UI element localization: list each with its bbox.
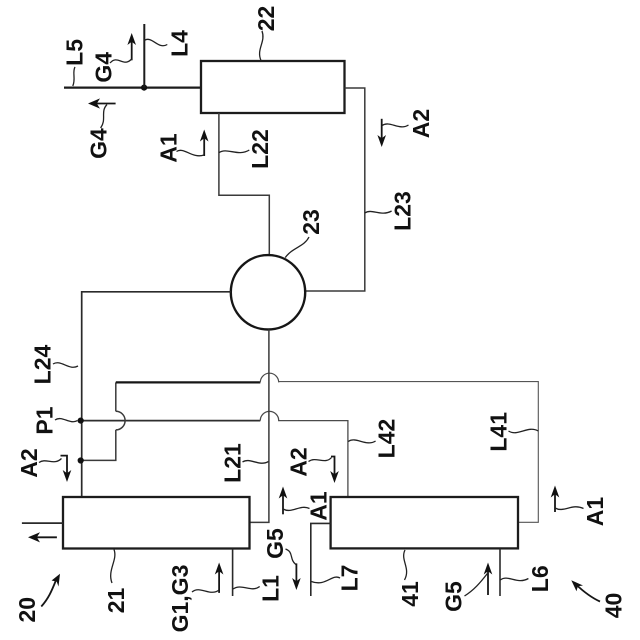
label L21 with leader	[243, 461, 269, 464]
wire L4 vertical	[143, 24, 145, 88]
svg-text:L41: L41	[486, 412, 512, 452]
label 40 with curved arrow	[576, 585, 600, 602]
wire L42 hop over L21 stem and run to box 41	[260, 411, 348, 497]
label 23 with leader	[285, 237, 309, 258]
wire L41 left segment from A2 node	[82, 430, 116, 461]
svg-text:A2: A2	[285, 447, 311, 476]
wire L7	[311, 523, 331, 596]
svg-text:41: 41	[397, 581, 423, 607]
box 21	[63, 497, 250, 549]
node P1 dot	[78, 418, 84, 424]
label L41 with leader	[509, 429, 539, 432]
label G1,G3 with arrow up	[218, 567, 220, 593]
svg-text:G5: G5	[440, 581, 466, 612]
svg-text:G4: G4	[90, 52, 116, 83]
label A1 right with arrow up	[554, 490, 556, 512]
label 20 with curved arrow	[41, 579, 56, 607]
wire L22	[219, 113, 269, 255]
svg-text:A2: A2	[16, 448, 42, 477]
wire L41 thick horizontal	[116, 381, 260, 383]
svg-text:L4: L4	[166, 30, 192, 57]
wire L41 hop over L21 stem	[260, 373, 278, 382]
label 41 with leader	[404, 550, 407, 580]
label L5 with leader	[73, 67, 75, 86]
wire L1	[232, 549, 234, 596]
label A2 mid-right with arrow down	[331, 457, 335, 479]
arrow outlet left	[33, 536, 57, 538]
label P1 with leader	[55, 419, 78, 422]
label L42 with leader	[348, 440, 375, 443]
label L7 with leader	[311, 577, 340, 583]
svg-text:L6: L6	[527, 565, 553, 592]
svg-text:L5: L5	[61, 39, 87, 66]
label A2 mid-left with arrow down	[61, 456, 68, 478]
svg-text:L42: L42	[373, 419, 399, 459]
svg-text:A1: A1	[155, 133, 181, 163]
svg-text:G1,G3: G1,G3	[167, 565, 193, 633]
label L22 with leader	[219, 150, 249, 153]
svg-text:L23: L23	[389, 191, 415, 231]
wire L41 vertical up to y382	[115, 382, 117, 411]
label L1 with leader	[233, 587, 260, 590]
node A2 dot	[78, 457, 84, 463]
label L4 with leader	[145, 39, 168, 45]
label L6 with leader	[500, 578, 528, 580]
wire L21 from circle to box 21	[250, 330, 269, 523]
box 41	[331, 497, 518, 548]
svg-text:G5: G5	[262, 528, 288, 559]
label 22 with leader	[260, 31, 263, 61]
svg-text:40: 40	[600, 593, 626, 619]
label G4 top with arrow up	[131, 38, 133, 61]
label A1 mid-left with arrow up	[282, 491, 284, 514]
svg-text:P1: P1	[31, 406, 57, 434]
node junction dot on L5/L4	[141, 85, 147, 91]
svg-text:L24: L24	[29, 344, 55, 384]
wire L41 right run to box 41	[279, 382, 539, 523]
wire L23	[305, 88, 364, 291]
label G4 left with arrow left	[93, 103, 116, 105]
label A2 top-right with arrow down	[381, 119, 383, 142]
svg-text:A2: A2	[408, 109, 434, 138]
label G5 right with arrow up	[487, 567, 489, 595]
wire L42 left part from P1	[82, 420, 261, 422]
svg-text:22: 22	[253, 6, 279, 32]
svg-text:L21: L21	[219, 443, 245, 483]
label A1 top with arrow up	[203, 134, 205, 156]
box 22	[201, 61, 345, 113]
svg-text:23: 23	[298, 209, 324, 235]
wire L41 hop over L42	[116, 411, 125, 430]
pump circle 23	[231, 255, 305, 329]
label L24 with leader	[53, 363, 78, 367]
svg-text:20: 20	[14, 597, 40, 623]
wire L24	[82, 292, 231, 497]
svg-text:A1: A1	[305, 491, 331, 521]
svg-text:L22: L22	[247, 129, 273, 169]
svg-text:A1: A1	[582, 497, 608, 527]
svg-text:L7: L7	[336, 565, 362, 592]
svg-text:G4: G4	[85, 128, 111, 159]
label G5 left with arrow down	[295, 563, 297, 585]
label 21 with leader	[111, 550, 115, 584]
wire L5 main horizontal line	[64, 86, 201, 88]
svg-text:L1: L1	[257, 575, 283, 602]
svg-text:21: 21	[103, 588, 129, 614]
wire box21 left outlet	[22, 522, 63, 524]
label L23 with leader	[365, 211, 392, 213]
wire L6	[499, 549, 501, 596]
